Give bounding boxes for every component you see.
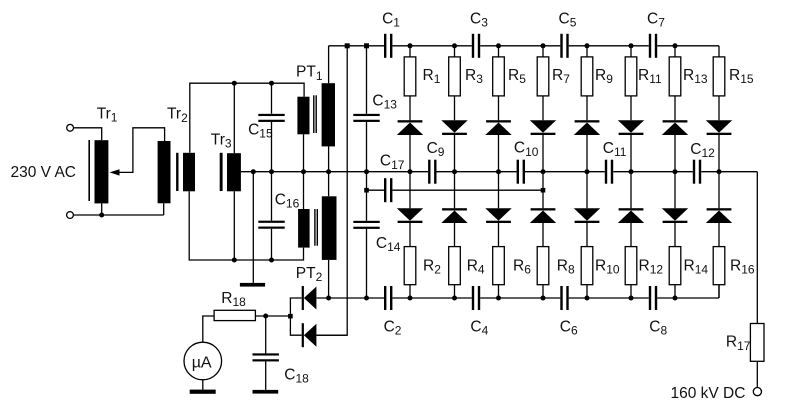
wire Tr1 tap to Tr2 primary — [116, 128, 165, 173]
svg-text:Tr1: Tr1 — [97, 105, 118, 124]
svg-text:R2: R2 — [423, 257, 441, 276]
diode D8a (top row, down) — [706, 120, 732, 133]
resistor R10 — [581, 247, 593, 285]
svg-text:R5: R5 — [508, 67, 526, 86]
junction Tr3 top — [232, 81, 237, 86]
capacitor C15 — [258, 114, 284, 116]
resistor R12 — [625, 247, 637, 285]
resistor R8 — [537, 247, 549, 285]
resistor R3 — [449, 57, 461, 96]
svg-text:PT1: PT1 — [296, 64, 323, 83]
diode D5b (bottom row, down) — [574, 208, 600, 221]
diode D2a (top row, down) — [441, 120, 467, 133]
svg-text:R7: R7 — [552, 67, 570, 86]
svg-text:R15: R15 — [729, 67, 754, 86]
junction dots top bus — [345, 43, 350, 48]
resistor R4 — [449, 247, 461, 285]
svg-text:C12: C12 — [690, 141, 715, 160]
svg-text:R1: R1 — [423, 67, 441, 86]
svg-text:C14: C14 — [376, 235, 401, 254]
junction Tr3 bottom — [232, 258, 237, 263]
ground meter — [190, 390, 216, 394]
diode PT2-D2 (left-pointing) — [302, 323, 304, 347]
svg-text:R18: R18 — [221, 290, 246, 309]
svg-text:R8: R8 — [557, 257, 575, 276]
svg-text:Tr3: Tr3 — [211, 131, 232, 150]
svg-text:R13: R13 — [683, 67, 708, 86]
diode D4a (top row, down) — [530, 120, 556, 133]
terminal output 160 kV — [753, 388, 761, 396]
svg-text:160 kV DC: 160 kV DC — [671, 385, 746, 402]
resistor R7 — [537, 57, 549, 96]
svg-text:C10: C10 — [514, 140, 539, 159]
diode D6b (bottom row, up) — [619, 208, 644, 210]
capacitor C16 — [258, 221, 284, 223]
resistor R13 — [669, 57, 681, 96]
capacitor C14 — [353, 221, 379, 223]
resistor R17 — [750, 324, 764, 362]
wire ground drop — [252, 172, 254, 283]
svg-text:C2: C2 — [384, 318, 402, 337]
wire top bus — [329, 45, 719, 47]
svg-text:R6: R6 — [513, 257, 531, 276]
capacitor C9 — [428, 160, 430, 184]
svg-text:C17: C17 — [380, 153, 405, 172]
capacitor C8 — [649, 286, 651, 310]
junction C17 bus left — [364, 188, 369, 193]
resistor R5 — [493, 57, 505, 96]
svg-text:PT2: PT2 — [296, 265, 323, 284]
svg-text:C13: C13 — [372, 93, 397, 112]
diode D7a (top row, up) — [663, 120, 688, 122]
resistor R6 — [493, 247, 505, 285]
svg-text:C6: C6 — [560, 318, 578, 337]
svg-text:R11: R11 — [638, 67, 662, 86]
transformer Tr1 (variac) — [88, 140, 90, 201]
wire R18 right — [255, 315, 290, 317]
wire R17 to output terminal — [756, 361, 758, 387]
terminal input N (bottom) — [67, 212, 74, 219]
wire C18 column — [265, 316, 267, 390]
wire meter to ground — [202, 380, 204, 390]
diode D3b (bottom row, down) — [485, 208, 511, 221]
resistor R15 — [713, 57, 725, 96]
variac tap arrow Tr1 — [110, 169, 120, 175]
wire PT1 primary bottom to PT2 primary top — [303, 134, 305, 209]
ground transformer section — [240, 283, 265, 287]
svg-text:C7: C7 — [647, 10, 665, 29]
resistor R18 — [214, 310, 255, 320]
resistor R16 — [713, 247, 725, 285]
capacitor C13 — [353, 114, 379, 116]
diode D6a (top row, down) — [618, 120, 644, 133]
junction dots bottom bus — [326, 296, 331, 301]
wire column 4 — [542, 46, 544, 298]
junction C15 top — [269, 81, 274, 86]
resistor R9 — [581, 57, 593, 96]
transformer PT1 — [297, 97, 309, 135]
svg-text:R9: R9 — [595, 67, 613, 86]
svg-text:C5: C5 — [559, 10, 577, 29]
transformer PT2 — [298, 209, 310, 248]
junction Tr1 bottom — [99, 213, 104, 218]
capacitor C5 — [560, 34, 562, 58]
wire C15-C16 column — [271, 122, 273, 260]
diode D8b (bottom row, up) — [707, 208, 732, 210]
wire PT2 diode left link — [290, 298, 301, 335]
capacitor C17 — [384, 178, 386, 202]
wire R18 left to meter — [203, 316, 214, 342]
capacitor C12 — [693, 160, 695, 184]
wire column 3 — [498, 46, 500, 298]
diode D3a (top row, up) — [486, 120, 511, 122]
svg-text:R4: R4 — [467, 257, 485, 276]
svg-text:C15: C15 — [248, 122, 273, 141]
svg-text:R16: R16 — [730, 257, 755, 276]
junction PT primaries mid rail — [301, 169, 306, 174]
svg-text:C3: C3 — [470, 10, 488, 29]
wire column 1 — [409, 46, 411, 298]
svg-text:C16: C16 — [275, 191, 300, 210]
svg-text:C11: C11 — [603, 140, 627, 159]
wire secondary top rail y83 — [190, 83, 304, 153]
diode D7b (bottom row, down) — [662, 208, 688, 221]
svg-text:C9: C9 — [427, 140, 445, 159]
wire left bottom rail — [189, 191, 303, 260]
svg-text:R12: R12 — [639, 257, 664, 276]
ground C18 — [253, 390, 279, 394]
capacitor C1 — [384, 34, 386, 58]
svg-text:C8: C8 — [649, 318, 667, 337]
wire column 8 — [718, 46, 720, 298]
wire bottom bus — [316, 285, 719, 298]
junction C16 bottom — [269, 258, 274, 263]
capacitor C11 — [605, 160, 607, 184]
svg-text:R3: R3 — [465, 67, 483, 86]
junction PT secondaries mid rail — [326, 169, 331, 174]
resistor R11 — [625, 57, 637, 96]
resistor R14 — [669, 247, 681, 285]
svg-text:C4: C4 — [470, 318, 488, 337]
wire node B column — [316, 46, 347, 335]
diode D4b (bottom row, up) — [531, 208, 556, 210]
junction C18 top — [263, 314, 268, 319]
wire column 2 — [454, 46, 456, 298]
svg-text:R10: R10 — [595, 257, 620, 276]
resistor R1 — [404, 57, 416, 96]
diode D2b (bottom row, up) — [442, 208, 467, 210]
diode D1b (bottom row, down) — [397, 208, 423, 221]
transformer Tr2 — [158, 141, 171, 203]
svg-text:C1: C1 — [382, 10, 400, 29]
wire column 7 — [674, 46, 676, 298]
capacitor C3 — [472, 34, 474, 58]
svg-text:230 V AC: 230 V AC — [11, 164, 77, 181]
capacitor C4 — [472, 286, 474, 310]
wire input top to Tr1 — [74, 128, 102, 140]
svg-text:R17: R17 — [726, 334, 751, 353]
diode D1a (top row, up) — [398, 120, 423, 122]
wire column 5 — [586, 46, 588, 298]
diode D5a (top row, up) — [575, 120, 600, 122]
junction C17 bus right — [541, 188, 546, 193]
capacitor C2 — [384, 286, 386, 310]
wire C17 bus — [367, 189, 544, 191]
junction R18 wire to diode link — [288, 314, 293, 319]
capacitor C10 — [517, 160, 519, 184]
capacitor C18 — [253, 353, 279, 355]
wire input bottom rail — [73, 203, 163, 215]
wire column 6 — [630, 46, 632, 298]
svg-text:C18: C18 — [284, 366, 309, 385]
junction C15-C16 mid rail — [269, 169, 274, 174]
terminal input L (top) — [67, 124, 74, 131]
capacitor C6 — [560, 286, 562, 310]
resistor R2 — [404, 247, 416, 285]
wire mid rail and right drop to R17 — [241, 172, 757, 324]
transformer Tr3 — [220, 153, 223, 191]
meter uA — [184, 342, 222, 380]
svg-text:R14: R14 — [684, 257, 709, 276]
svg-text:µA: µA — [192, 354, 212, 371]
junction dots mid rail — [364, 169, 369, 174]
diode PT2-D1 (left-pointing) — [302, 286, 304, 310]
wire PT1 secondary column — [328, 46, 330, 298]
junction ground mid rail — [251, 169, 256, 174]
capacitor C7 — [649, 34, 651, 58]
wire C13-C14 column — [366, 46, 368, 298]
svg-text:Tr2: Tr2 — [167, 106, 188, 125]
wire PT2-D2 to node B — [316, 334, 347, 336]
